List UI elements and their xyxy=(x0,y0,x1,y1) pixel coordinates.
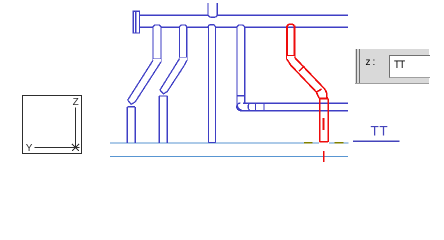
header pipe bottom line segments xyxy=(140,26,349,28)
red pipe lower vertical tube (crosses pipe P2, no fill) xyxy=(320,99,329,142)
red pipe upper vertical tube xyxy=(287,26,295,60)
branch B1 saddle arch xyxy=(153,25,161,27)
branch B2 elbow and diagonal tube xyxy=(160,58,187,94)
header pipe top line xyxy=(140,14,349,16)
olive dashed segment right of red pipe xyxy=(335,142,344,144)
UCS icon box xyxy=(23,96,82,154)
pipe P2 weld seam 2 xyxy=(263,103,265,111)
UCS icon Z axis line xyxy=(75,108,77,148)
svg-text:Z: Z xyxy=(73,97,79,108)
red pipe insertion-point tick xyxy=(323,118,325,130)
branch B1 lower vertical tube xyxy=(127,107,135,143)
UCS icon X cross xyxy=(72,144,79,151)
branch B2 saddle arch xyxy=(179,25,186,27)
riser B3 saddle arch xyxy=(208,25,216,28)
toolbar text field xyxy=(389,55,430,78)
pipe P2 socket bell arc xyxy=(248,103,251,111)
flange at header left end xyxy=(133,11,139,33)
riser B4 vertical tube down to pipe P2 xyxy=(237,27,245,96)
toolbar field value TT xyxy=(394,59,405,71)
baseline light-blue line upper xyxy=(110,142,319,144)
annotation underline xyxy=(353,140,400,142)
red pipe lower centerline tick xyxy=(323,151,325,162)
toolbar panel with z field xyxy=(355,49,429,84)
UCS icon Y axis line xyxy=(35,147,80,149)
pipe P2 left elbow (from riser B4) xyxy=(237,96,245,111)
red pipe upper elbow and diagonal tube xyxy=(287,56,322,92)
branch B1 elbow and diagonal tube xyxy=(128,59,161,104)
red pipe lower elbow xyxy=(316,87,328,99)
selected red pipe: saddle arch xyxy=(287,24,295,27)
red pipe diagonal weld seam xyxy=(299,66,304,71)
toolbar label z: xyxy=(366,57,378,68)
branch B2 lower vertical tube xyxy=(159,96,167,143)
olive dashed segment left of red pipe xyxy=(304,142,313,144)
svg-text:Y: Y xyxy=(26,143,33,154)
branch B1 upper vertical tube xyxy=(153,27,161,62)
lower horizontal pipe P2 body xyxy=(240,103,348,110)
pipe P2 weld seam 1 xyxy=(255,103,257,111)
branch B2 upper vertical tube xyxy=(179,27,186,61)
baseline light-blue line lower xyxy=(110,156,348,158)
riser B3 stub above header xyxy=(208,3,217,17)
svg-text:TT: TT xyxy=(371,123,389,138)
toolbar gripper bars xyxy=(356,49,357,83)
riser B4 saddle arch xyxy=(237,25,245,27)
riser B3 vertical tube to baseline xyxy=(208,27,215,143)
